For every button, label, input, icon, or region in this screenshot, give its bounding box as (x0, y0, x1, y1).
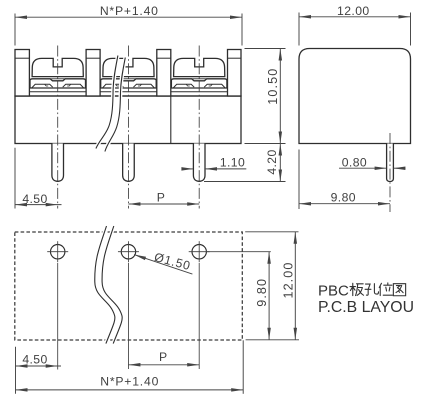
side view: housing profile (299, 49, 411, 144)
note: PBC board hole map (Chinese) (318, 283, 406, 300)
dimension 1.10 (pin width) (181, 155, 246, 170)
PCB layout: hole 2 (118, 241, 139, 262)
front view: break line (wavy) (96, 56, 125, 152)
dimension P (front view pitch) (128, 190, 199, 205)
dimension 12.00 (PCB board height) (245, 232, 299, 340)
side view: solder pin (387, 144, 394, 182)
svg-text:12.00: 12.00 (337, 4, 370, 18)
dimension 9.80 (side view pin position) (299, 150, 390, 210)
dimension N*P+1.40 (PCB overall) (16, 340, 244, 394)
front view: centre line pin 2 (127, 46, 129, 209)
svg-text:9.80: 9.80 (331, 191, 356, 205)
svg-text:P: P (157, 190, 166, 204)
dimension 4.50 (PCB) (16, 347, 62, 394)
svg-text:1.10: 1.10 (220, 155, 245, 169)
front view: housing segment joint line (170, 96, 172, 144)
PCB layout: hole extension lines (58, 263, 200, 370)
PCB layout: break line (wavy) (95, 226, 122, 344)
front view: solder pin 2 (123, 144, 135, 182)
dimension 0.80 (side pin width) (339, 156, 406, 170)
front view: terminal block housing lower body (15, 96, 241, 144)
front view: solder pin 3 (193, 144, 205, 182)
front view: screw terminal 1 (30, 58, 86, 88)
svg-text:4.50: 4.50 (22, 352, 47, 366)
dimension 9.80 (PCB hole row) (206, 252, 271, 340)
svg-text:0.80: 0.80 (342, 156, 367, 170)
svg-text:4.50: 4.50 (22, 192, 47, 206)
dimension 12.00 (side view width) (299, 4, 411, 46)
dimension N*P+1.40 (front view top) (15, 4, 242, 45)
front view: barrier wall 2 (86, 50, 100, 97)
svg-text:PBC: PBC (318, 283, 349, 300)
svg-text:9.80: 9.80 (255, 278, 269, 307)
svg-text:N*P+1.40: N*P+1.40 (100, 4, 159, 18)
dimension 4.20 (pin length) (204, 144, 286, 182)
svg-text:4.20: 4.20 (265, 149, 279, 174)
svg-text:N*P+1.40: N*P+1.40 (100, 374, 159, 388)
svg-text:12.00: 12.00 (282, 261, 296, 298)
dimension P (PCB pitch) (128, 350, 199, 367)
svg-text:P: P (159, 350, 168, 364)
front view: barrier wall 1 (15, 50, 29, 97)
front view: bay ledge lines 1 (29, 88, 86, 92)
PCB layout: hole 1 (47, 241, 68, 262)
dimension 4.50 (front view) (15, 148, 62, 209)
front view: bay ledge lines 3 (171, 88, 228, 92)
front view: centre line pin 3 (198, 46, 200, 209)
front view: screw terminal 3 (171, 58, 227, 88)
svg-text:P.C.B LAYOU: P.C.B LAYOU (318, 299, 414, 316)
svg-text:10.50: 10.50 (266, 68, 280, 105)
dimension 10.50 (housing height) (245, 49, 286, 144)
side view: pin centre line (389, 133, 391, 212)
front view: solder pin 1 (52, 144, 64, 182)
PCB layout: board outline (dashed) (15, 232, 243, 340)
front view: barrier wall 3 (157, 50, 171, 97)
front view: bay ledge lines 2 (100, 88, 157, 92)
PCB layout: leader Ø1.50 (134, 250, 193, 274)
front view: barrier wall 4 (228, 50, 242, 97)
PCB layout: hole 3 (189, 241, 210, 262)
front view: screw terminal 2 (101, 58, 157, 88)
front view: centre line pin 1 (57, 46, 59, 209)
